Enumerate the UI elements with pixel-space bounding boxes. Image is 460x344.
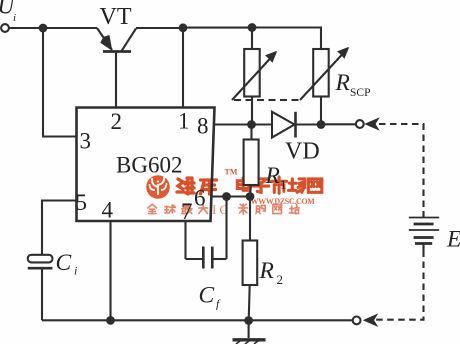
label Ci [56, 250, 78, 278]
svg-text:4: 4 [102, 198, 114, 223]
svg-text:SCP: SCP [350, 87, 370, 99]
rheostat 1 arrow [232, 52, 277, 101]
svg-text:1: 1 [280, 177, 287, 192]
svg-text:6: 6 [194, 186, 206, 211]
wire Cf right leg [225, 197, 227, 260]
svg-text:WWW.DZSC.COM: WWW.DZSC.COM [251, 197, 316, 206]
wire top to rheostat column [183, 27, 252, 29]
svg-text:VD: VD [285, 139, 320, 165]
watermark slogan 全球最大IC采购网站 [148, 204, 208, 213]
ground [233, 321, 266, 344]
svg-text:5: 5 [76, 190, 88, 215]
wire pin 4 [109, 221, 111, 320]
svg-text:VT: VT [100, 4, 132, 30]
label R1 [265, 163, 287, 192]
IC U1 BG602 box [77, 108, 215, 222]
watermark logo (dzsc circle emblem) [146, 175, 170, 199]
node ground junction [244, 316, 253, 325]
label Cf [199, 283, 222, 311]
svg-text:E: E [446, 227, 460, 253]
wire pin 1 [182, 28, 184, 108]
wire pin 5 to Ci [42, 201, 77, 256]
svg-text:C: C [56, 250, 72, 276]
wire top left [9, 27, 97, 29]
arrow into terminal (top) [366, 118, 379, 129]
wire pin 7 leg [184, 221, 186, 259]
node pin 4 bottom [106, 316, 115, 325]
svg-text:R: R [335, 70, 350, 96]
svg-text:BG602: BG602 [116, 153, 182, 178]
svg-text:3: 3 [80, 129, 92, 154]
node pin1 tap [179, 23, 188, 32]
dashed gang link between rheostat arrows [234, 99, 300, 101]
wire [251, 28, 253, 50]
svg-text:R: R [259, 258, 274, 284]
svg-text:1: 1 [178, 109, 190, 134]
transistor VT [97, 28, 136, 108]
svg-text:TM: TM [225, 168, 238, 177]
resistor R2 body [243, 241, 258, 286]
wire pin 6 row [211, 195, 250, 197]
wire [251, 97, 253, 125]
svg-text:2: 2 [111, 109, 123, 134]
node input junction [39, 24, 48, 33]
wire R1 bottom [250, 185, 251, 197]
node diode cathode junction [317, 120, 326, 129]
svg-text:8: 8 [197, 114, 209, 139]
rheostat 2 (RSCP) body [313, 49, 329, 97]
capacitor Cf [186, 247, 227, 269]
battery E [409, 211, 439, 251]
svg-text:R: R [265, 163, 280, 189]
wire [252, 123, 273, 125]
svg-text:2: 2 [277, 272, 284, 287]
wire [296, 123, 322, 125]
rheostat 2 arrow [300, 48, 349, 101]
arrow into terminal (bottom) [364, 315, 377, 326]
dashed wire battery to bottom row [375, 251, 424, 320]
input terminal [1, 24, 9, 32]
wire [320, 97, 322, 125]
wire collector to pin1 node [136, 27, 183, 29]
node Cf tap [222, 192, 231, 201]
wire Ci bottom [41, 268, 43, 320]
watermark title 维库 [177, 178, 217, 194]
dashed wire to battery top [379, 124, 424, 211]
svg-text:i: i [13, 12, 16, 24]
node diode anode junction [247, 120, 256, 129]
terminal sense + [356, 120, 364, 128]
svg-text:IC: IC [212, 202, 231, 217]
svg-text:i: i [74, 264, 77, 278]
resistor R1 body [244, 140, 259, 186]
label R2 [259, 258, 284, 287]
rheostat 1 body [244, 49, 260, 97]
wire R2 bottom [249, 285, 250, 321]
wire pin 8 to diode row [214, 123, 252, 125]
node R1/R2 junction [246, 192, 255, 201]
wire R1 top [250, 125, 252, 140]
diode VD [272, 112, 296, 138]
svg-text:C: C [199, 283, 215, 309]
label RSCP [335, 70, 371, 99]
wire R2 top [249, 197, 251, 241]
label Ui [0, 0, 16, 24]
terminal sense - [353, 317, 361, 325]
wire to pin 3 [43, 28, 77, 137]
watermark title 电子市场网 [237, 177, 321, 193]
capacitor Ci (electrolytic) [28, 255, 53, 268]
node rheostat 1 top [248, 23, 257, 32]
wire to sense terminal [321, 123, 356, 125]
wire top right corner [252, 28, 321, 50]
wire bottom row [42, 319, 353, 321]
svg-text:7: 7 [181, 199, 193, 224]
